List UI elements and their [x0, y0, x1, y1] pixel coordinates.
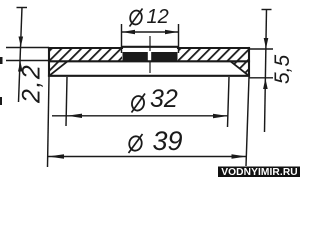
- svg-text:39: 39: [153, 126, 183, 156]
- svg-text:2,2: 2,2: [18, 64, 46, 104]
- svg-text:5,5: 5,5: [271, 54, 294, 84]
- svg-text:32: 32: [150, 85, 178, 113]
- svg-text:12: 12: [147, 6, 169, 28]
- svg-text:VODNYIMIR.RU: VODNYIMIR.RU: [221, 167, 297, 177]
